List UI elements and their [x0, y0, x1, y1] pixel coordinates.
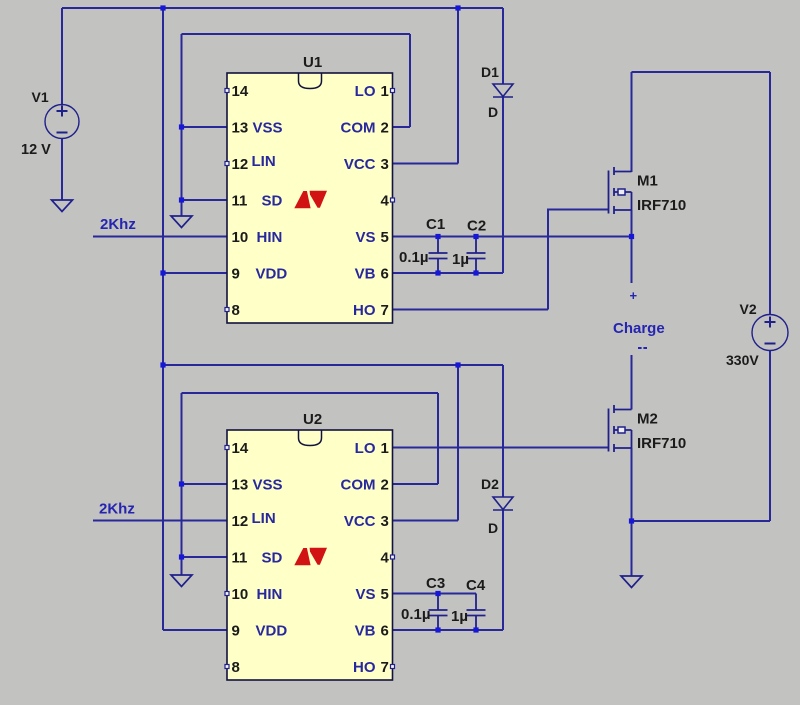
charge minus marks: [638, 347, 647, 349]
wire U2 VSS riser: [181, 393, 183, 575]
wire M1 gate riser: [547, 209, 549, 310]
wire M2 source lead: [631, 448, 633, 521]
svg-text:SD: SD: [262, 550, 283, 567]
wire U1 VSS lead: [182, 126, 228, 128]
op-amp-driver IC U1 body: [227, 73, 393, 323]
wire VCC2 riser: [457, 365, 459, 521]
wire V2 bottom lead: [769, 350, 771, 521]
svg-text:3: 3: [381, 513, 389, 530]
junction mid rail tee: [160, 362, 165, 367]
junction M2 source node: [629, 518, 634, 523]
svg-text:6: 6: [381, 623, 389, 640]
junction top rail / V-rail: [160, 5, 165, 10]
wire V1 top lead: [61, 8, 63, 105]
svg-text:13: 13: [232, 477, 249, 494]
wire U1 HO lead: [393, 309, 549, 311]
wire D2 anode lead: [502, 365, 504, 497]
wire U1 COM loop riser: [409, 34, 411, 127]
svg-text:8: 8: [232, 659, 240, 676]
svg-text:VSS: VSS: [253, 477, 283, 494]
junction M1 source node: [629, 234, 634, 239]
svg-text:LO: LO: [355, 440, 376, 457]
pin square U2 pin7: [391, 665, 395, 669]
junction top rail / VCC1: [455, 5, 460, 10]
U2 LT logo: [294, 548, 327, 566]
pin square U1 pin8: [225, 308, 229, 312]
wire U2 VB bus: [393, 629, 504, 631]
svg-text:C3: C3: [426, 575, 445, 592]
capacitor C4: [467, 594, 486, 631]
svg-text:C2: C2: [467, 218, 486, 235]
junction mid rail / VCC2: [455, 362, 460, 367]
svg-text:VB: VB: [355, 266, 376, 283]
wire M1 source lead: [631, 210, 633, 237]
svg-text:1µ: 1µ: [452, 251, 469, 268]
junction C4 bottom: [473, 627, 478, 632]
wire U2 COM loop top: [182, 392, 439, 394]
svg-text:2Khz: 2Khz: [99, 501, 135, 518]
svg-text:330V: 330V: [726, 352, 759, 368]
pin square U2 pin8: [225, 665, 229, 669]
U2 notch: [299, 430, 322, 446]
svg-text:M1: M1: [637, 173, 658, 190]
wire VCC1 riser: [457, 8, 459, 164]
pin square U1 pin1: [391, 89, 395, 93]
wire V2 top lead: [769, 72, 771, 315]
svg-text:M2: M2: [637, 411, 658, 428]
svg-text:VCC: VCC: [344, 156, 376, 173]
wire U1 VDD tee: [163, 272, 227, 274]
svg-text:9: 9: [232, 266, 240, 283]
svg-text:HIN: HIN: [257, 229, 283, 246]
svg-text:D: D: [488, 104, 498, 120]
svg-text:1µ: 1µ: [451, 608, 468, 625]
wire M2 ground lead: [631, 521, 633, 576]
junction C1 top: [435, 234, 440, 239]
svg-text:HO: HO: [353, 659, 376, 676]
svg-text:VS: VS: [355, 586, 375, 603]
svg-text:Charge: Charge: [613, 320, 665, 337]
svg-text:13: 13: [232, 120, 249, 137]
svg-text:V1: V1: [32, 89, 49, 105]
wire U1 VCC lead: [393, 163, 459, 165]
svg-text:C1: C1: [426, 216, 445, 233]
capacitor C2: [467, 237, 486, 274]
svg-text:11: 11: [232, 193, 248, 210]
wire U1 COM loop top: [182, 33, 411, 35]
svg-text:COM: COM: [341, 477, 376, 494]
op-amp-driver IC U2 body: [227, 430, 393, 680]
junction C3 bottom: [435, 627, 440, 632]
svg-text:6: 6: [381, 266, 389, 283]
junction C3 top: [435, 591, 440, 596]
svg-text:C4: C4: [466, 577, 486, 594]
svg-text:LIN: LIN: [252, 153, 276, 170]
voltage source V2 circle: [752, 315, 788, 351]
pin square U2 pin4: [391, 555, 395, 559]
svg-text:LIN: LIN: [252, 510, 276, 527]
pin square U1 pin12: [225, 162, 229, 166]
svg-text:12: 12: [232, 513, 249, 530]
wire D1 anode lead: [502, 8, 504, 84]
svg-text:HIN: HIN: [257, 586, 283, 603]
svg-text:VB: VB: [355, 623, 376, 640]
svg-text:LO: LO: [355, 83, 376, 100]
wire rail x163 vertical: [162, 7, 164, 630]
svg-text:4: 4: [381, 193, 390, 210]
svg-text:1: 1: [381, 440, 389, 457]
ground U2 SD ground: [171, 575, 192, 587]
transistor M1 (IRF710 nmos): [609, 167, 632, 214]
wire M2 drain stub upper: [631, 355, 633, 410]
svg-text:U1: U1: [303, 54, 322, 71]
junction C1 bottom: [435, 270, 440, 275]
svg-text:10: 10: [232, 586, 249, 603]
wire U2 VS bus: [393, 593, 477, 595]
junction SD2 tee: [179, 554, 184, 559]
svg-text:D: D: [488, 520, 498, 536]
svg-text:0.1µ: 0.1µ: [401, 606, 431, 623]
svg-text:7: 7: [381, 302, 389, 319]
wire U2 VDD feed: [163, 629, 227, 631]
svg-text:0.1µ: 0.1µ: [399, 249, 429, 266]
junction C2 bottom: [473, 270, 478, 275]
junction VSS2 tee: [179, 481, 184, 486]
wire HV bottom link: [632, 520, 771, 522]
svg-text:2: 2: [381, 477, 389, 494]
U1 notch: [299, 73, 322, 89]
svg-text:VDD: VDD: [256, 623, 288, 640]
wire charge node stub: [631, 237, 633, 284]
wire U2 VSS lead: [182, 483, 228, 485]
wire U2 LIN input: [93, 520, 227, 522]
svg-text:14: 14: [232, 440, 249, 457]
wire U2 LO to M2 gate: [393, 447, 609, 449]
svg-text:9: 9: [232, 623, 240, 640]
svg-text:5: 5: [381, 586, 389, 603]
wire U1 VSS riser: [181, 34, 183, 216]
wire M1 gate lead: [548, 209, 609, 211]
svg-text:IRF710: IRF710: [637, 435, 686, 452]
svg-text:5: 5: [381, 229, 389, 246]
voltage source V1 circle: [45, 105, 79, 139]
transistor M2 (IRF710 nmos): [609, 405, 632, 452]
ground U1 SD ground: [171, 216, 192, 228]
wire U2 COM lead: [393, 483, 439, 485]
svg-text:2: 2: [381, 120, 389, 137]
svg-text:1: 1: [381, 83, 389, 100]
svg-text:U2: U2: [303, 411, 322, 428]
wire M1 drain riser: [631, 72, 633, 172]
svg-text:D2: D2: [481, 476, 499, 492]
ground V1 ground: [52, 200, 73, 212]
svg-text:14: 14: [232, 83, 249, 100]
svg-text:11: 11: [232, 550, 248, 567]
wire U2 COM loop riser: [437, 393, 439, 484]
capacitor C3: [429, 594, 448, 631]
pin square U1 pin4: [391, 198, 395, 202]
U1 LT logo: [294, 191, 327, 209]
wire U1 HIN input: [93, 236, 227, 238]
svg-text:V2: V2: [740, 301, 757, 317]
svg-text:4: 4: [381, 550, 390, 567]
svg-text:3: 3: [381, 156, 389, 173]
ground M2 source ground: [621, 576, 642, 588]
capacitor C1: [429, 237, 448, 274]
svg-text:VSS: VSS: [253, 120, 283, 137]
svg-text:7: 7: [381, 659, 389, 676]
wire 12V top rail: [62, 7, 503, 9]
svg-text:2Khz: 2Khz: [100, 216, 136, 233]
svg-text:VCC: VCC: [344, 513, 376, 530]
wire D2 cathode to VB2: [502, 510, 504, 630]
junction C2 top: [473, 234, 478, 239]
wire U2 SD lead: [182, 556, 228, 558]
svg-text:12 V: 12 V: [21, 142, 51, 158]
junction SD1 tee: [179, 197, 184, 202]
diode D1: [493, 84, 513, 97]
pin square U2 pin10: [225, 592, 229, 596]
svg-text:8: 8: [232, 302, 240, 319]
wire V1 bottom lead: [61, 138, 63, 200]
svg-text:HO: HO: [353, 302, 376, 319]
svg-text:+: +: [630, 288, 638, 303]
svg-text:D1: D1: [481, 64, 499, 80]
wire U1 VS bus: [393, 236, 632, 238]
svg-text:VS: VS: [355, 229, 375, 246]
wire mid rail y365: [163, 364, 503, 366]
pin square U2 pin14: [225, 446, 229, 450]
svg-text:SD: SD: [262, 193, 283, 210]
wire U2 VCC lead: [393, 520, 459, 522]
wire U1 SD lead: [182, 199, 228, 201]
svg-text:VDD: VDD: [256, 266, 288, 283]
svg-text:COM: COM: [341, 120, 376, 137]
pin square U1 pin14: [225, 89, 229, 93]
junction VDD1 tee: [160, 270, 165, 275]
wire HV top link: [632, 71, 771, 73]
svg-text:10: 10: [232, 229, 249, 246]
junction VSS1 tee: [179, 124, 184, 129]
wire D1 cathode to VB1: [502, 97, 504, 273]
svg-text:12: 12: [232, 156, 249, 173]
wire U1 COM lead: [393, 126, 411, 128]
wire U1 VB bus: [393, 272, 504, 274]
svg-text:IRF710: IRF710: [637, 197, 686, 214]
diode D2: [493, 497, 513, 510]
